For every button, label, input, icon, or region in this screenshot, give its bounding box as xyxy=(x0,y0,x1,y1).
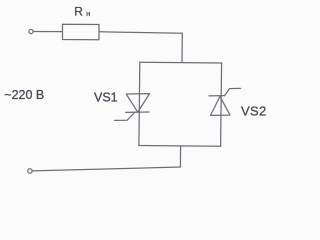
label Rн xyxy=(74,5,90,19)
svg-text:VS2: VS2 xyxy=(241,104,266,119)
svg-text:н: н xyxy=(86,11,90,18)
svg-text:R: R xyxy=(74,5,83,19)
wire: vertical drop from loop bottom xyxy=(179,146,181,167)
thyristor VS2 xyxy=(209,88,241,115)
wire: top terminal to resistor xyxy=(33,31,62,33)
input terminal (bottom left) xyxy=(28,169,32,173)
wire: loop left (VS1 branch) xyxy=(138,62,141,145)
resistor Rн xyxy=(63,24,100,40)
thyristor VS1 xyxy=(115,94,150,121)
wire: bottom return to terminal xyxy=(32,167,180,171)
wire: loop right (VS2 branch) xyxy=(221,63,222,146)
svg-text:~220 В: ~220 В xyxy=(4,88,44,102)
wire: loop bottom (node joining VS1 and VS2) xyxy=(139,145,221,148)
input terminal (top left) xyxy=(29,29,33,33)
wire: vertical drop to parallel branch top node xyxy=(181,33,183,62)
svg-text:VS1: VS1 xyxy=(94,91,118,105)
wire: resistor to top node xyxy=(99,32,182,33)
wire: loop top (node joining VS1 and VS2 anodes) xyxy=(140,61,222,64)
